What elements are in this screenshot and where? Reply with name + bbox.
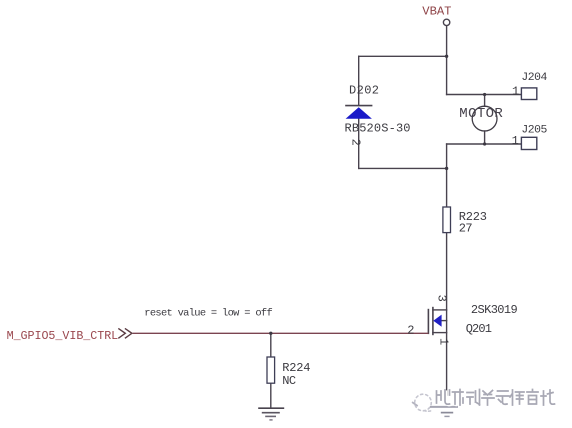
svg-text:Q201: Q201	[466, 322, 492, 336]
svg-text:1: 1	[512, 134, 519, 148]
svg-text:reset value = low = off: reset value = low = off	[144, 308, 272, 320]
svg-text:D202: D202	[349, 83, 379, 97]
svg-text:J204: J204	[521, 72, 547, 84]
svg-text:NC: NC	[282, 374, 296, 388]
svg-text:RB520S-30: RB520S-30	[345, 122, 411, 136]
svg-text:2SK3019: 2SK3019	[471, 303, 518, 317]
svg-text:J205: J205	[521, 124, 547, 136]
svg-text:2: 2	[349, 139, 363, 146]
svg-text:27: 27	[459, 222, 473, 236]
svg-text:MOTOR: MOTOR	[459, 106, 503, 122]
svg-text:R224: R224	[282, 361, 310, 375]
svg-text:M_GPIO5_VIB_CTRL: M_GPIO5_VIB_CTRL	[7, 329, 119, 343]
svg-text:2: 2	[407, 324, 414, 338]
svg-text:1: 1	[437, 338, 451, 345]
svg-text:VBAT: VBAT	[422, 4, 451, 18]
svg-text:1: 1	[512, 84, 519, 98]
svg-text:3: 3	[435, 295, 449, 302]
